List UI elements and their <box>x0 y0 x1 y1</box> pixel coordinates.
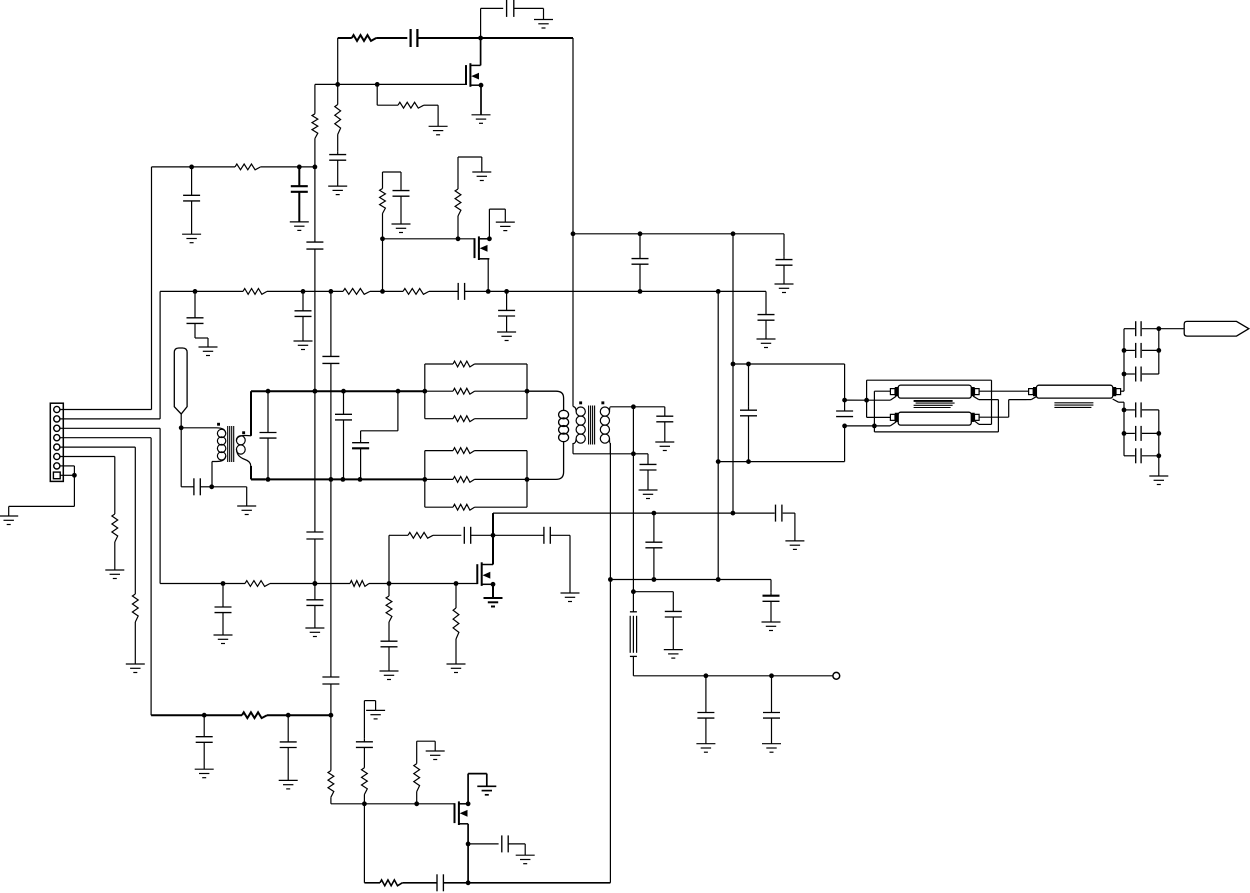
wire <box>550 535 570 593</box>
wire <box>1159 328 1184 330</box>
junction <box>504 289 509 294</box>
transistor Q1 <box>466 63 481 87</box>
coupling hatch 1 <box>914 400 953 402</box>
wire <box>364 803 454 805</box>
capacitor C28 <box>544 527 550 544</box>
wire <box>765 291 767 314</box>
wire <box>770 580 772 593</box>
wire <box>330 479 332 677</box>
ground <box>472 172 491 181</box>
stripline TL1 right connector <box>971 387 974 396</box>
wire <box>400 172 402 190</box>
wire <box>633 454 648 465</box>
transformer T2 secondary <box>609 407 612 412</box>
wire <box>425 450 527 452</box>
junction <box>525 389 530 394</box>
junction <box>266 477 271 482</box>
transformer T2 core <box>588 406 590 445</box>
wire <box>388 584 390 638</box>
junction <box>189 165 194 170</box>
junction <box>864 398 869 403</box>
ground <box>757 339 776 348</box>
output terminal arrow <box>1184 321 1249 336</box>
phase dot T1 primary <box>217 423 220 426</box>
junction <box>335 82 340 87</box>
junction <box>1122 348 1127 353</box>
stripline TL1 <box>898 385 971 398</box>
wire <box>330 363 332 479</box>
ground <box>305 628 324 637</box>
ground <box>762 622 781 631</box>
junction <box>631 404 636 409</box>
wire <box>134 622 136 664</box>
capacitor C42 <box>1136 321 1141 336</box>
wire <box>1158 329 1160 374</box>
resistor R11 <box>132 594 138 622</box>
wire <box>572 38 574 234</box>
junction <box>608 577 613 582</box>
wire <box>1142 328 1159 330</box>
capacitor C7 <box>306 532 323 539</box>
wire <box>314 605 316 628</box>
wire <box>455 584 457 665</box>
wire <box>337 160 339 186</box>
junction <box>362 801 367 806</box>
resistor R28 <box>380 880 402 886</box>
resistor R14 <box>453 388 475 394</box>
wire <box>783 234 785 256</box>
capacitor C31 <box>763 593 780 602</box>
wire <box>1120 329 1124 392</box>
wire <box>732 364 734 513</box>
ground <box>392 224 411 233</box>
transformer T2 coupling winding <box>527 391 564 410</box>
wire <box>314 84 316 113</box>
resonator Y1 <box>632 592 634 612</box>
wire <box>382 239 384 292</box>
wire <box>664 407 666 416</box>
junction <box>1156 326 1161 331</box>
wire <box>389 534 408 536</box>
wire <box>388 647 390 671</box>
wire <box>251 466 265 479</box>
junction <box>422 389 427 394</box>
wire <box>465 290 766 292</box>
wire <box>493 534 544 536</box>
ground <box>199 347 218 356</box>
junction <box>487 236 492 241</box>
junction <box>638 289 643 294</box>
resistor R1 <box>352 35 376 41</box>
ground <box>696 744 715 753</box>
wire <box>1124 328 1135 330</box>
wire <box>874 396 998 432</box>
transformer T1 secondary <box>237 435 252 440</box>
junction <box>414 801 419 806</box>
wire <box>733 363 845 365</box>
wire <box>867 400 891 417</box>
wire <box>314 249 316 391</box>
wire <box>1124 432 1135 434</box>
wire <box>573 453 633 455</box>
resistor R2 <box>398 102 424 108</box>
wire <box>377 84 398 105</box>
ground <box>126 664 145 673</box>
wire <box>765 320 767 339</box>
wire <box>383 172 402 189</box>
capacitor C37 <box>196 715 213 742</box>
junction <box>571 231 576 236</box>
wire <box>783 513 795 541</box>
wire <box>152 166 236 168</box>
wire <box>151 714 242 716</box>
ground <box>214 635 233 644</box>
junction <box>72 473 77 478</box>
wire <box>572 234 574 407</box>
capacitor C24 <box>215 584 232 613</box>
wire <box>181 427 216 429</box>
capacitor C38 <box>280 715 297 747</box>
ground <box>294 341 313 350</box>
wire <box>443 882 610 884</box>
wire <box>748 364 750 407</box>
wire <box>369 583 477 585</box>
wire <box>251 478 425 480</box>
wire <box>363 804 365 883</box>
junction <box>638 231 643 236</box>
wire <box>60 167 152 410</box>
resistor R6 <box>243 289 267 295</box>
wire <box>417 741 436 804</box>
wire <box>363 747 365 803</box>
capacitor C25 <box>306 584 323 606</box>
wire <box>705 718 707 744</box>
junction <box>387 581 392 586</box>
resistor R23 <box>408 532 433 538</box>
wire <box>1142 349 1159 351</box>
capacitor C30 <box>645 513 662 579</box>
phase dot T2 secondary <box>601 401 604 404</box>
capacitor C6 <box>306 242 323 249</box>
junction <box>329 477 334 482</box>
resistor R18 <box>453 504 475 510</box>
wire <box>492 584 494 598</box>
wire <box>314 391 316 532</box>
wire <box>425 390 527 392</box>
junction <box>652 511 657 516</box>
wire <box>492 513 494 564</box>
ground <box>447 664 466 673</box>
wire <box>1142 432 1159 434</box>
wire <box>1124 373 1135 375</box>
ground <box>477 786 496 795</box>
wire <box>425 418 527 420</box>
junction <box>297 165 302 170</box>
wire <box>363 701 365 739</box>
ground <box>380 671 399 680</box>
junction <box>358 477 363 482</box>
capacitor C27 <box>464 527 470 544</box>
wire <box>364 701 375 711</box>
junction <box>872 424 877 429</box>
wire <box>610 406 664 408</box>
stripline TL3 left connector <box>1029 389 1034 395</box>
capacitor C23 <box>836 400 853 417</box>
junction <box>341 389 346 394</box>
wire <box>471 534 493 536</box>
wire <box>844 364 846 400</box>
wire <box>211 462 213 487</box>
ground <box>105 570 124 579</box>
junction <box>652 577 657 582</box>
antenna E1 <box>174 348 187 414</box>
wire <box>331 715 365 804</box>
wire <box>770 601 772 622</box>
capacitor C46 <box>1136 426 1141 441</box>
wire <box>457 216 459 239</box>
junction <box>1122 408 1127 413</box>
wire <box>845 425 875 427</box>
resistor R9 <box>380 189 386 214</box>
resistor bank box R16-R18 <box>424 451 426 508</box>
wire <box>180 414 182 428</box>
wire <box>633 592 673 612</box>
capacitor C43 <box>1136 343 1141 358</box>
stripline TL2 <box>898 412 971 425</box>
ground <box>664 650 683 659</box>
resistor R5 <box>235 164 261 170</box>
capacitor C34 <box>763 676 780 718</box>
junction <box>454 581 459 586</box>
junction <box>313 389 318 394</box>
capacitor C16 <box>194 478 200 495</box>
junction <box>716 459 721 464</box>
connector J1 <box>50 403 63 481</box>
capacitor C22 <box>740 407 757 416</box>
junction <box>466 801 471 806</box>
resistor R17 <box>453 477 475 483</box>
capacitor C32 <box>665 611 682 617</box>
wire <box>979 400 1026 418</box>
resistor R22 <box>453 608 459 639</box>
resistor R13 <box>453 361 475 367</box>
capacitor C33 <box>697 676 714 718</box>
wire <box>267 290 343 292</box>
stripline TL1 left connector <box>890 389 895 395</box>
wire <box>672 617 674 650</box>
wire <box>610 579 771 581</box>
wire <box>1142 373 1159 375</box>
wire <box>251 390 425 392</box>
junction <box>179 425 184 430</box>
resistor R3 <box>335 105 341 135</box>
wire <box>302 316 304 341</box>
junction <box>525 477 530 482</box>
stripline TL2 left connector <box>890 414 895 420</box>
junction <box>704 673 709 678</box>
junction <box>313 581 318 586</box>
wire <box>508 844 525 855</box>
wire <box>270 583 350 585</box>
junction <box>731 231 736 236</box>
junction <box>716 289 721 294</box>
resistor R27 <box>414 764 420 792</box>
wire <box>844 426 846 462</box>
ground <box>655 442 674 451</box>
transistor Q2 <box>475 236 490 260</box>
wire <box>867 380 992 424</box>
junction <box>221 581 226 586</box>
junction <box>1122 431 1127 436</box>
junction <box>1122 372 1127 377</box>
junction <box>479 83 484 88</box>
wire <box>212 487 247 506</box>
resistor R26 <box>362 768 368 795</box>
junction <box>313 581 318 586</box>
wire <box>468 843 499 845</box>
wire <box>771 718 773 744</box>
wire <box>1124 455 1135 457</box>
wire <box>330 684 332 715</box>
stripline TL3 right connector <box>1113 387 1116 396</box>
transistor Q3 <box>477 562 493 586</box>
ground <box>366 710 385 719</box>
resistor R25 <box>242 712 267 718</box>
resistor R16 <box>453 448 475 454</box>
resistor R21 <box>386 596 392 622</box>
capacitor C19 <box>352 440 369 449</box>
capacitor C21 <box>640 464 657 470</box>
wire <box>338 37 352 39</box>
wire <box>337 84 339 151</box>
capacitor C11 <box>187 291 204 323</box>
terminal (open circle) <box>833 672 840 679</box>
wire <box>845 399 867 401</box>
junction <box>631 451 636 456</box>
wire <box>493 512 775 514</box>
stripline TL3 <box>1036 385 1112 398</box>
ground <box>484 598 503 607</box>
capacitor C40 <box>502 835 508 852</box>
junction <box>1156 348 1161 353</box>
capacitor C9 <box>632 234 649 292</box>
junction <box>466 880 471 885</box>
wire <box>480 85 482 115</box>
junction <box>396 389 401 394</box>
wire <box>314 167 316 242</box>
wire <box>425 506 527 508</box>
capacitor C18 <box>335 391 352 479</box>
wire <box>402 882 437 884</box>
wire <box>298 192 300 222</box>
capacitor C2 <box>411 29 418 47</box>
resistor R15 <box>453 416 475 422</box>
ground <box>429 126 448 135</box>
wire <box>60 428 160 583</box>
junction <box>842 398 847 403</box>
wire <box>60 447 135 594</box>
capacitor C17 <box>260 391 277 479</box>
wire <box>376 37 407 39</box>
capacitor C14 <box>758 315 775 321</box>
capacitor C1 <box>507 0 514 17</box>
wire <box>203 742 205 769</box>
wire <box>424 105 438 126</box>
transformer T2 primary <box>573 407 576 412</box>
stripline TL2 right connector <box>971 413 974 422</box>
junction <box>209 484 214 489</box>
ground <box>762 744 781 753</box>
wire <box>783 265 785 284</box>
junction <box>731 362 736 367</box>
resistor R7 <box>343 289 370 295</box>
wire <box>360 448 362 479</box>
junction <box>491 582 496 587</box>
wire <box>425 478 527 480</box>
wire <box>647 470 649 490</box>
wire <box>1027 396 1037 399</box>
ground <box>516 855 535 864</box>
ground <box>426 751 445 760</box>
wire <box>481 8 504 38</box>
wire <box>160 583 245 585</box>
wire <box>732 234 734 364</box>
wire <box>388 535 390 583</box>
wire <box>222 613 224 635</box>
junction <box>202 713 207 718</box>
wire <box>632 407 634 454</box>
capacitor C8 <box>776 256 793 265</box>
phase dot T2 primary <box>579 401 582 404</box>
junction <box>313 165 318 170</box>
wire <box>1142 455 1159 457</box>
wire <box>487 259 489 292</box>
wire <box>337 38 339 84</box>
junction <box>491 533 496 538</box>
wire <box>382 214 384 239</box>
junction <box>731 511 736 516</box>
capacitor C47 <box>1136 448 1141 463</box>
wire <box>632 454 634 592</box>
capacitor C10 <box>458 283 464 300</box>
ground <box>775 284 794 293</box>
wire <box>60 466 74 475</box>
capacitor C39 <box>356 738 373 747</box>
wire <box>400 196 402 224</box>
wire <box>480 38 482 65</box>
wire <box>514 8 544 19</box>
wire <box>609 444 611 883</box>
resistor R19 <box>245 581 270 587</box>
ground <box>195 769 214 778</box>
wire <box>664 422 666 442</box>
transformer T1 primary <box>217 428 226 434</box>
junction <box>716 577 721 582</box>
wire <box>114 542 116 570</box>
ground <box>279 780 298 789</box>
wire <box>370 290 403 292</box>
phase dot T1 secondary <box>242 431 245 434</box>
wire <box>250 391 252 436</box>
capacitor C12 <box>295 291 312 316</box>
capacitor C29 <box>776 505 782 522</box>
junction <box>329 713 334 718</box>
resistor R12 <box>112 514 118 542</box>
junction <box>1156 431 1161 436</box>
wire <box>9 475 75 516</box>
capacitor C41 <box>437 874 443 891</box>
junction <box>746 362 751 367</box>
